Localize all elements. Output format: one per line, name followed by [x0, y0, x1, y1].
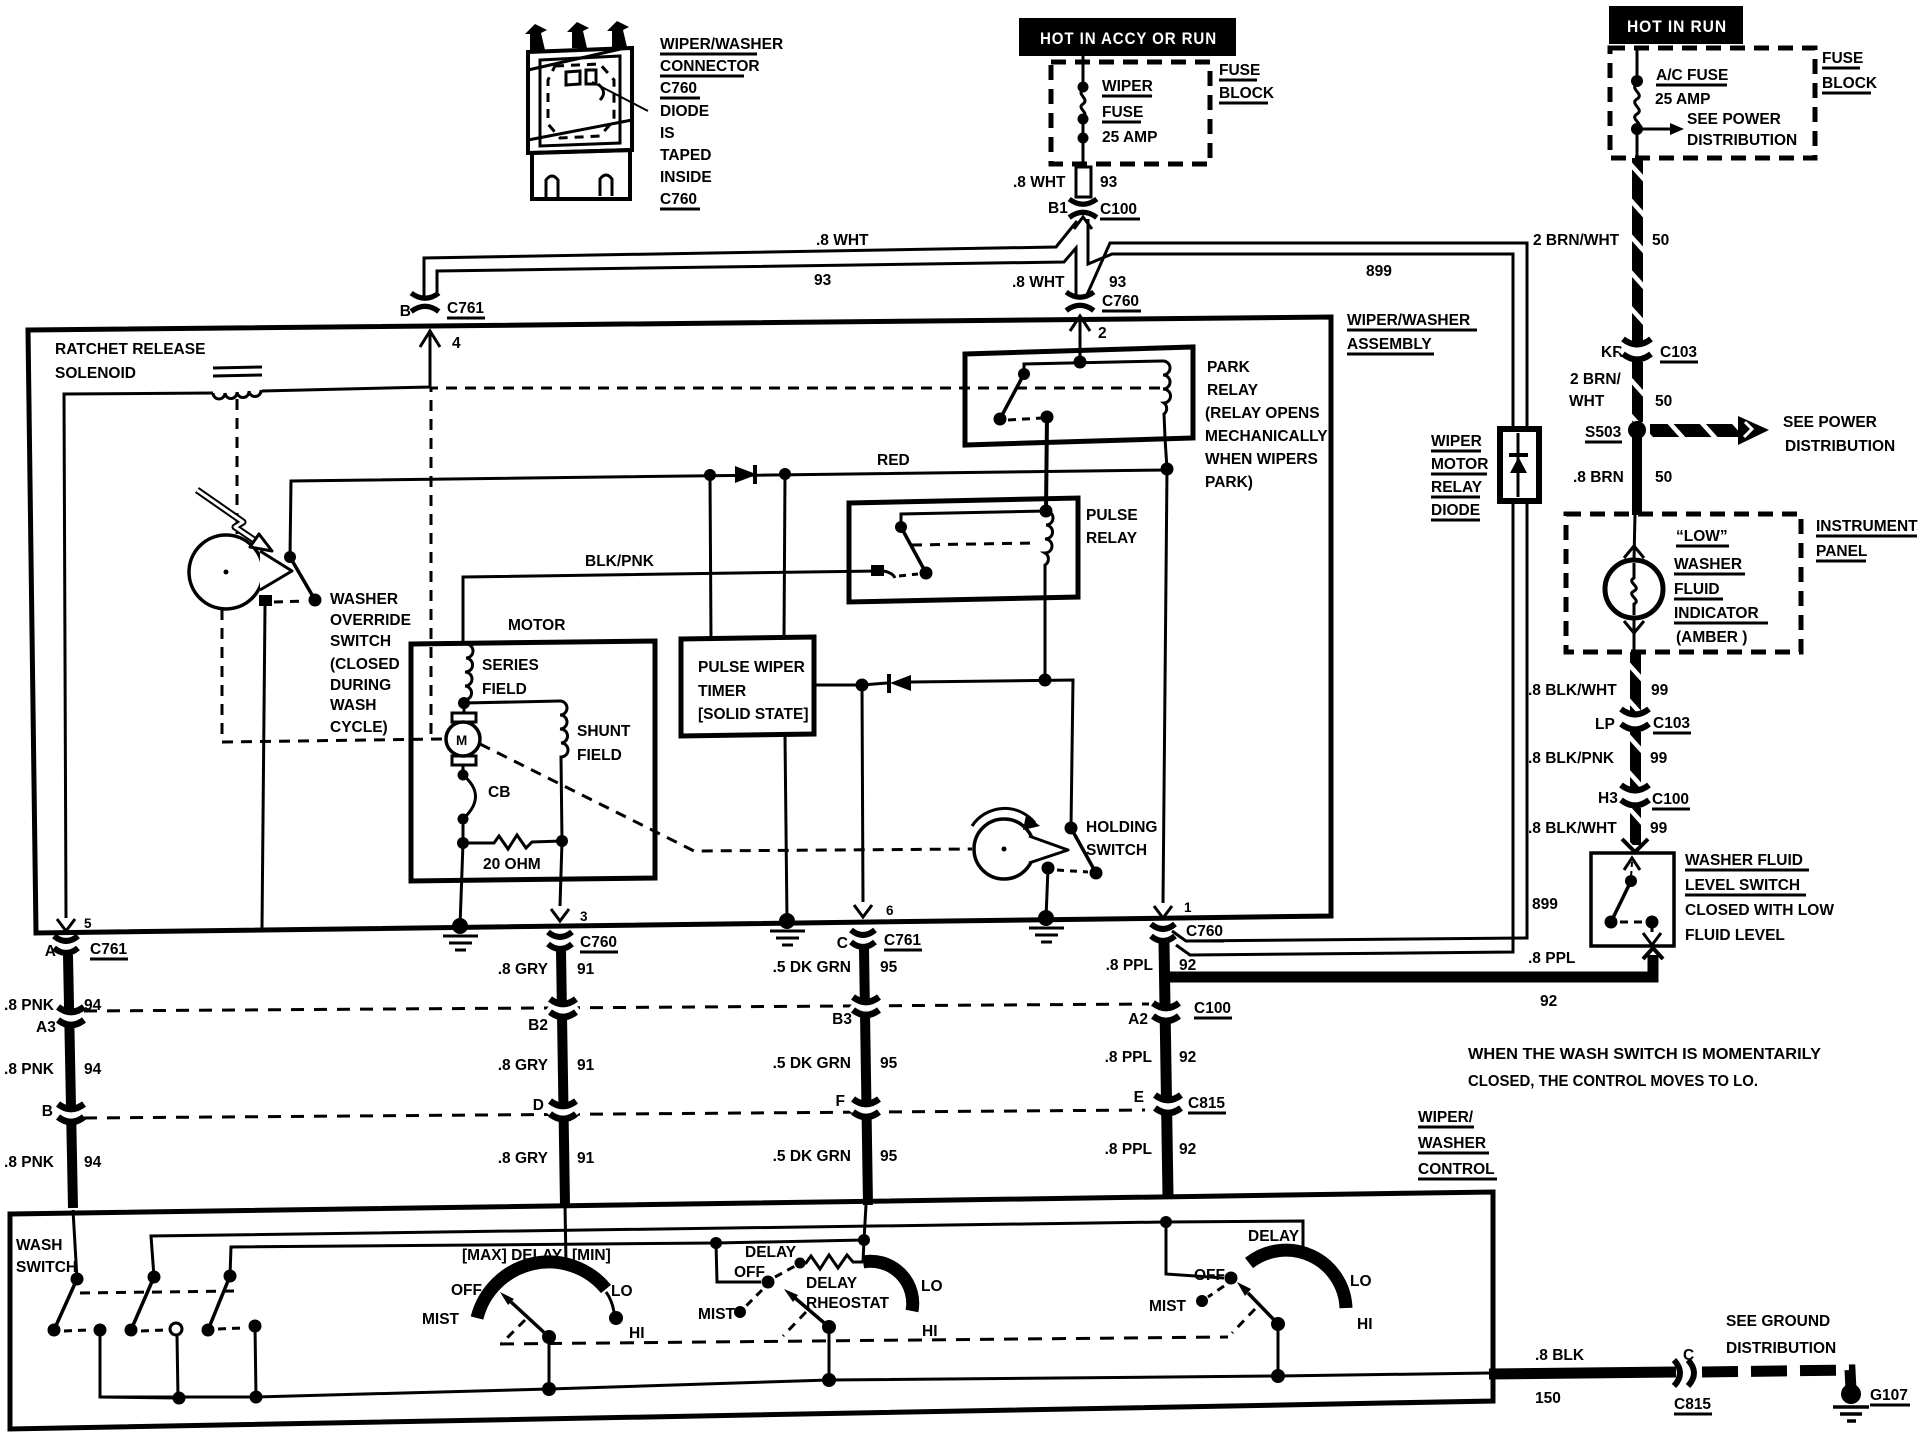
pulse relay contact	[895, 521, 907, 533]
svg-text:50: 50	[1655, 393, 1672, 410]
svg-text:DISTRIBUTION: DISTRIBUTION	[1785, 438, 1895, 455]
svg-text:2: 2	[1098, 325, 1107, 342]
rail from pole 3 to delay group 2	[230, 1240, 864, 1276]
connector E C815	[1154, 1095, 1182, 1113]
svg-text:DELAY: DELAY	[745, 1244, 797, 1261]
pulse relay lever	[901, 527, 926, 573]
dashed link motor to holding switch	[480, 744, 972, 851]
.8 BRN 50 solid wire to instrument panel	[1632, 437, 1642, 515]
svg-text:LO: LO	[611, 1283, 633, 1300]
svg-text:TIMER: TIMER	[698, 683, 746, 700]
label WIPER/WASHER CONNECTOR C760	[660, 36, 783, 209]
svg-text:WIPER: WIPER	[1431, 433, 1482, 450]
delay rheostat	[795, 1258, 806, 1269]
park relay top bus	[1024, 361, 1163, 374]
node RED to park coil	[1161, 463, 1174, 476]
svg-text:CLOSED, THE CONTROL MOVES TO L: CLOSED, THE CONTROL MOVES TO LO.	[1468, 1073, 1758, 1090]
svg-text:WHEN THE WASH SWITCH IS MOMENT: WHEN THE WASH SWITCH IS MOMENTARILY	[1468, 1046, 1822, 1063]
svg-text:95: 95	[880, 1055, 898, 1072]
hatched .8 BLK/WHT 99 below panel	[1630, 652, 1641, 712]
svg-text:95: 95	[880, 1148, 898, 1165]
wiper/washer assembly box	[28, 317, 1331, 933]
svg-text:LP: LP	[1595, 716, 1615, 733]
svg-text:91: 91	[577, 961, 595, 978]
svg-text:B: B	[42, 1103, 53, 1120]
svg-text:HOT IN RUN: HOT IN RUN	[1627, 17, 1727, 36]
svg-text:25 AMP: 25 AMP	[1655, 91, 1710, 108]
svg-text:93: 93	[814, 272, 832, 289]
hatched wire KR to S503	[1632, 362, 1643, 422]
park dashes group 3	[1232, 1309, 1255, 1333]
svg-text:WIPER: WIPER	[1102, 78, 1153, 95]
wiper/washer connector C760 pictorial drawing	[528, 48, 648, 199]
park dashes group 1	[502, 1320, 525, 1343]
connector B (C815 row)	[57, 1104, 85, 1122]
svg-text:MIST: MIST	[1149, 1298, 1187, 1315]
pulse relay box	[849, 498, 1078, 602]
wire pulse coil down to diode wire	[1044, 597, 1047, 680]
.5 DK GRN column wire	[864, 949, 868, 1205]
svg-text:3: 3	[580, 909, 588, 924]
DK GRN feed into group 2	[864, 1205, 866, 1240]
svg-text:A/C FUSE: A/C FUSE	[1656, 67, 1728, 84]
svg-text:MOTOR: MOTOR	[508, 617, 565, 634]
wash switch gang dash	[80, 1291, 235, 1293]
connector A3 (C100 row)	[57, 1007, 85, 1025]
svg-text:C760: C760	[1186, 923, 1223, 940]
wiper switch pole 2	[148, 1271, 161, 1284]
wire .8 WHT 93 from C100 B1 to C761 B	[424, 221, 1077, 297]
svg-text:F: F	[836, 1093, 845, 1110]
wire 899: C760 top right loop to pin 1	[1086, 243, 1527, 941]
svg-text:.8 PPL: .8 PPL	[1106, 957, 1153, 974]
gang dashed rail (control)	[500, 1337, 1228, 1344]
motor box	[411, 641, 655, 881]
svg-text:50: 50	[1655, 469, 1672, 486]
diode in timer-holding wire	[862, 683, 887, 685]
svg-text:(CLOSED: (CLOSED	[330, 656, 400, 673]
svg-text:50: 50	[1652, 232, 1669, 249]
svg-text:FUSE: FUSE	[1219, 62, 1260, 79]
svg-text:OFF: OFF	[734, 1264, 765, 1281]
low washer fluid indicator lamp	[1634, 514, 1635, 560]
BLK/PNK wire from series field to pulse relay	[463, 571, 878, 641]
washer fluid level switch box	[1591, 853, 1674, 946]
svg-text:FLUID: FLUID	[1674, 581, 1720, 598]
svg-text:.8 PPL: .8 PPL	[1528, 950, 1575, 967]
holding switch lower contact	[1042, 862, 1055, 875]
park relay coil	[1163, 361, 1171, 438]
svg-text:SWITCH: SWITCH	[1086, 842, 1147, 859]
svg-text:D: D	[533, 1097, 544, 1114]
svg-text:IS: IS	[660, 125, 675, 142]
svg-text:5: 5	[84, 916, 92, 931]
connector terminals	[525, 21, 629, 50]
svg-text:BLOCK: BLOCK	[1822, 75, 1878, 92]
.8 BLK 150 ground wire out of control box	[1489, 1372, 1676, 1374]
wire shunt to pin 3 exit	[560, 841, 562, 906]
svg-text:92: 92	[1179, 1049, 1196, 1066]
wire junction to shunt field	[464, 701, 560, 703]
svg-text:LEVEL SWITCH: LEVEL SWITCH	[1685, 877, 1800, 894]
hatched arrow to power distribution	[1650, 424, 1743, 437]
svg-text:.8 WHT: .8 WHT	[1012, 274, 1065, 291]
wire DK GRN column inside assembly	[862, 685, 863, 902]
svg-text:92: 92	[1179, 1141, 1196, 1158]
assembly exit arrow pin 3	[551, 909, 569, 921]
svg-text:RELAY: RELAY	[1431, 479, 1483, 496]
svg-text:LO: LO	[1350, 1273, 1372, 1290]
svg-text:PANEL: PANEL	[1816, 543, 1867, 560]
svg-text:899: 899	[1366, 263, 1392, 280]
svg-text:SEE POWER: SEE POWER	[1687, 111, 1781, 128]
arc 1	[477, 1262, 606, 1318]
svg-text:A2: A2	[1128, 1011, 1148, 1028]
wire pin4 down into assembly to solenoid	[262, 331, 430, 391]
svg-text:MIST: MIST	[698, 1306, 736, 1323]
lever group 1	[510, 1301, 549, 1337]
svg-text:.8 BLK/WHT: .8 BLK/WHT	[1528, 682, 1617, 699]
svg-text:HOT IN ACCY OR RUN: HOT IN ACCY OR RUN	[1040, 29, 1217, 48]
assembly exit arrow pin 1	[1154, 906, 1172, 918]
pulse relay coil	[1045, 511, 1053, 597]
svg-text:[SOLID STATE]: [SOLID STATE]	[698, 706, 809, 723]
svg-text:CONTROL: CONTROL	[1418, 1161, 1495, 1178]
wash switch pole 1	[73, 1210, 77, 1279]
hatched 2 BRN/WHT wire from A/C fuse	[1632, 158, 1643, 342]
svg-text:C100: C100	[1652, 791, 1689, 808]
svg-text:95: 95	[880, 959, 898, 976]
svg-text:94: 94	[84, 1061, 102, 1078]
pulse relay top bus	[901, 511, 1046, 527]
svg-text:OFF: OFF	[1194, 1267, 1225, 1284]
svg-text:1: 1	[1184, 900, 1192, 915]
pulse relay BLK/PNK contact	[871, 565, 884, 576]
svg-text:(RELAY OPENS: (RELAY OPENS	[1205, 405, 1320, 422]
washer override fixed contact, dash, ground wire	[259, 595, 272, 606]
svg-text:94: 94	[84, 1154, 102, 1171]
node: pulse relay coil to diode wire	[1039, 674, 1052, 687]
svg-text:OFF: OFF	[451, 1282, 482, 1299]
svg-text:DURING: DURING	[330, 677, 391, 694]
svg-text:DELAY: DELAY	[1248, 1228, 1300, 1245]
svg-text:C760: C760	[660, 80, 697, 97]
HOT IN RUN banner	[1609, 6, 1743, 44]
svg-text:RATCHET RELEASE: RATCHET RELEASE	[55, 341, 205, 358]
dashed row C100	[84, 1004, 1149, 1011]
svg-text:INSTRUMENT: INSTRUMENT	[1816, 518, 1918, 535]
park relay contact 1	[1018, 368, 1030, 380]
svg-text:E: E	[1134, 1089, 1144, 1106]
svg-text:.8 GRY: .8 GRY	[498, 1150, 549, 1167]
timer output wire to diode chain	[814, 684, 862, 687]
svg-text:DISTRIBUTION: DISTRIBUTION	[1687, 132, 1797, 149]
svg-text:92: 92	[1179, 957, 1196, 974]
svg-text:RELAY: RELAY	[1086, 530, 1138, 547]
connector C760 (in-line, top)	[1066, 292, 1094, 310]
svg-text:WHEN WIPERS: WHEN WIPERS	[1205, 451, 1318, 468]
svg-text:HOLDING: HOLDING	[1086, 819, 1157, 836]
svg-text:FIELD: FIELD	[482, 681, 527, 698]
fuse block dashed box (right)	[1610, 48, 1815, 158]
svg-text:.5 DK GRN: .5 DK GRN	[773, 959, 851, 976]
svg-text:SWITCH: SWITCH	[330, 633, 391, 650]
timer ground pin	[785, 736, 787, 921]
svg-text:.8 BLK/WHT: .8 BLK/WHT	[1528, 820, 1617, 837]
svg-text:.8 GRY: .8 GRY	[498, 1057, 549, 1074]
shunt field coil	[560, 701, 568, 841]
connector F	[852, 1099, 880, 1117]
svg-text:B2: B2	[528, 1017, 548, 1034]
GRY feed into arc 1	[565, 1205, 566, 1263]
assembly exit arrow pin 6	[854, 905, 872, 917]
svg-text:RED: RED	[877, 452, 910, 469]
svg-text:SHUNT: SHUNT	[577, 723, 631, 740]
arc 3	[1249, 1250, 1346, 1308]
svg-text:C761: C761	[447, 300, 484, 317]
wire park contact to pulse relay coil	[1046, 417, 1047, 511]
svg-text:25 AMP: 25 AMP	[1102, 129, 1157, 146]
dashed link cam to motor	[222, 609, 443, 742]
svg-text:H3: H3	[1598, 790, 1618, 807]
.8 PPL column wire	[1164, 943, 1168, 1196]
svg-text:.8 BLK/PNK: .8 BLK/PNK	[1528, 750, 1615, 767]
wiper motor relay diode box	[1500, 429, 1539, 501]
diode on RED wire	[704, 469, 716, 481]
svg-text:WIPER/WASHER: WIPER/WASHER	[660, 36, 783, 53]
svg-text:TAPED: TAPED	[660, 147, 711, 164]
svg-text:.8 PPL: .8 PPL	[1105, 1141, 1152, 1158]
wire diode feed: B1 C100 down, right, through diode, to pin 1	[1088, 219, 1513, 955]
svg-text:RELAY: RELAY	[1207, 382, 1259, 399]
connector B2	[549, 999, 577, 1017]
washer override upper contact and wire to RED	[284, 551, 296, 563]
svg-text:PULSE: PULSE	[1086, 507, 1138, 524]
hatched .8 BLK/WHT 99 to level switch	[1630, 808, 1641, 845]
svg-text:91: 91	[577, 1150, 595, 1167]
svg-text:HI: HI	[629, 1325, 645, 1342]
svg-text:.8 BRN: .8 BRN	[1573, 469, 1624, 486]
connector D	[549, 1101, 577, 1119]
svg-text:2 BRN/WHT: 2 BRN/WHT	[1533, 232, 1620, 249]
wire pin 2 to park relay top	[1079, 316, 1082, 362]
ground G107	[1841, 1384, 1861, 1404]
dashed row C815	[84, 1110, 1145, 1118]
arc 2	[863, 1261, 913, 1311]
svg-text:WASHER: WASHER	[330, 591, 398, 608]
svg-text:CYCLE): CYCLE)	[330, 719, 388, 736]
dashed ground wire to G107	[1702, 1370, 1851, 1390]
ground rail along control box bottom	[100, 1373, 1490, 1397]
svg-text:SEE GROUND: SEE GROUND	[1726, 1313, 1830, 1330]
svg-text:.8 BLK: .8 BLK	[1535, 1347, 1585, 1364]
svg-text:C103: C103	[1653, 715, 1690, 732]
svg-text:S503: S503	[1585, 424, 1622, 441]
svg-text:.8 GRY: .8 GRY	[498, 961, 549, 978]
svg-text:6: 6	[886, 903, 894, 918]
pulse wiper timer box	[681, 637, 814, 736]
node pulse relay coil top	[1040, 505, 1053, 518]
diode symbol in box	[1509, 453, 1528, 457]
svg-text:B1: B1	[1048, 200, 1068, 217]
wire armature to case ground	[460, 843, 463, 926]
washer override lever	[290, 557, 315, 600]
svg-text:PULSE WIPER: PULSE WIPER	[698, 659, 805, 676]
svg-text:.8 PNK: .8 PNK	[4, 1061, 55, 1078]
dashed link solenoid to washer cam	[236, 399, 239, 534]
connector A2 C100	[1152, 1003, 1180, 1021]
wire holding contact to ground	[1046, 868, 1048, 918]
svg-text:PARK): PARK)	[1205, 474, 1253, 491]
arrow up under B1 C100	[1074, 217, 1092, 229]
circuit breaker CB	[462, 765, 465, 774]
svg-text:B3: B3	[832, 1011, 852, 1028]
connector B3	[852, 997, 880, 1015]
delay group 2: rheostat	[710, 1237, 722, 1249]
svg-text:DIODE: DIODE	[660, 103, 709, 120]
svg-text:WASH: WASH	[330, 697, 377, 714]
svg-text:899: 899	[1532, 896, 1558, 913]
svg-text:CLOSED WITH LOW: CLOSED WITH LOW	[1685, 902, 1834, 919]
svg-text:99: 99	[1650, 750, 1668, 767]
holding switch cam	[974, 819, 1034, 879]
park relay contact dash	[1008, 418, 1042, 420]
svg-text:C815: C815	[1188, 1095, 1225, 1112]
wiper fuse symbol	[1081, 56, 1085, 164]
svg-text:INDICATOR: INDICATOR	[1674, 605, 1759, 622]
svg-text:91: 91	[577, 1057, 595, 1074]
node park relay top	[1074, 356, 1087, 369]
HI contact group 1	[606, 1292, 614, 1312]
svg-text:FLUID LEVEL: FLUID LEVEL	[1685, 927, 1785, 944]
svg-text:DISTRIBUTION: DISTRIBUTION	[1726, 1340, 1836, 1357]
svg-text:SOLENOID: SOLENOID	[55, 365, 136, 382]
svg-text:(AMBER ): (AMBER )	[1676, 629, 1747, 646]
ground (motor case)	[452, 918, 468, 934]
fuse block dashed box (left)	[1051, 62, 1210, 164]
svg-text:WASHER: WASHER	[1674, 556, 1742, 573]
instrument panel dashed box	[1566, 514, 1801, 652]
svg-text:150: 150	[1535, 1390, 1561, 1407]
svg-text:C760: C760	[1102, 293, 1139, 310]
svg-text:SWITCH: SWITCH	[16, 1259, 77, 1276]
wiper switch pole 3	[224, 1270, 237, 1283]
svg-text:2 BRN/: 2 BRN/	[1570, 371, 1622, 388]
svg-text:SEE POWER: SEE POWER	[1783, 414, 1877, 431]
svg-text:BLOCK: BLOCK	[1219, 85, 1275, 102]
park relay box	[965, 347, 1193, 445]
svg-text:FUSE: FUSE	[1822, 50, 1863, 67]
wiper/washer control box	[10, 1192, 1493, 1429]
park relay lever	[1000, 374, 1024, 419]
wire .8 WHT 93 from C760 to C761 B	[437, 248, 1076, 296]
svg-text:WASH: WASH	[16, 1237, 63, 1254]
svg-text:99: 99	[1651, 682, 1669, 699]
svg-text:CONNECTOR: CONNECTOR	[660, 58, 760, 75]
svg-text:A3: A3	[36, 1019, 56, 1036]
.8 PPL 92 thick wire level switch to column	[1643, 948, 1663, 959]
node: resistor left junction	[457, 837, 469, 849]
svg-text:DELAY: DELAY	[806, 1275, 858, 1292]
svg-text:INSIDE: INSIDE	[660, 169, 712, 186]
wire park coil to RED junction and down to pin 1	[1163, 438, 1167, 903]
svg-text:FUSE: FUSE	[1102, 104, 1143, 121]
wire RED junction to pulse timer right pin	[784, 474, 785, 639]
svg-text:93: 93	[1109, 274, 1127, 291]
level switch internals	[1624, 858, 1640, 870]
svg-text:99: 99	[1650, 820, 1668, 837]
hatched .8 BLK/PNK 99	[1630, 732, 1641, 788]
connector B C761 (top of assembly)	[411, 293, 439, 311]
svg-text:92: 92	[1540, 993, 1557, 1010]
svg-text:C760: C760	[660, 191, 697, 208]
20 OHM resistor	[463, 835, 562, 849]
svg-text:MECHANICALLY: MECHANICALLY	[1205, 428, 1328, 445]
holding switch top contact	[1065, 822, 1078, 835]
svg-text:WASHER FLUID: WASHER FLUID	[1685, 852, 1803, 869]
node: series/shunt junction	[458, 697, 470, 709]
holding switch lever	[1071, 828, 1096, 873]
delay group 3	[1160, 1216, 1172, 1228]
svg-text:HI: HI	[1357, 1316, 1373, 1333]
svg-text:.8 PPL: .8 PPL	[1105, 1049, 1152, 1066]
svg-text:BLK/PNK: BLK/PNK	[585, 553, 655, 570]
svg-text:B: B	[400, 303, 411, 320]
svg-text:SERIES: SERIES	[482, 657, 539, 674]
svg-text:ASSEMBLY: ASSEMBLY	[1347, 336, 1432, 353]
svg-text:C103: C103	[1660, 344, 1697, 361]
svg-text:.8 PNK: .8 PNK	[4, 1154, 55, 1171]
svg-text:C760: C760	[580, 934, 617, 951]
holding switch rotate arrow	[972, 808, 1035, 826]
rail from pole 2 to PPL and group 3	[151, 1221, 1303, 1277]
washer override switch cam	[189, 535, 263, 609]
dash OFF to MIST group 2	[746, 1290, 762, 1306]
svg-text:.5 DK GRN: .5 DK GRN	[773, 1055, 851, 1072]
svg-text:.8 PNK: .8 PNK	[4, 997, 55, 1014]
svg-text:MOTOR: MOTOR	[1431, 456, 1488, 473]
.8 PNK column wire	[68, 955, 73, 1208]
svg-text:WASHER: WASHER	[1418, 1135, 1486, 1152]
svg-text:CB: CB	[488, 784, 510, 801]
svg-text:MIST: MIST	[422, 1311, 460, 1328]
lightning arrow at cam	[197, 490, 272, 551]
connector B1 C100	[1069, 199, 1097, 217]
svg-text:WHT: WHT	[1569, 393, 1605, 410]
dash OFF to rheostat	[775, 1266, 795, 1277]
inline connector housing below fuse box	[1076, 167, 1091, 197]
pulse relay mid dash	[912, 543, 1036, 545]
svg-text:OVERRIDE: OVERRIDE	[330, 612, 411, 629]
svg-text:FIELD: FIELD	[577, 747, 622, 764]
arrow up pin 2 into park relay	[1070, 316, 1090, 331]
series field coil	[464, 644, 473, 700]
svg-text:“LOW”: “LOW”	[1676, 528, 1728, 545]
connector C760 (GRY column)	[548, 932, 572, 949]
svg-text:DIODE: DIODE	[1431, 502, 1480, 519]
park relay contact 2	[1041, 411, 1054, 424]
svg-text:C100: C100	[1100, 201, 1137, 218]
svg-text:G107: G107	[1870, 1387, 1908, 1404]
park dashes group 2	[783, 1312, 806, 1336]
wire RED junction to pulse timer left pin	[710, 475, 711, 639]
node: DK GRN tap	[856, 679, 869, 692]
svg-text:WIPER/: WIPER/	[1418, 1109, 1474, 1126]
svg-text:RHEOSTAT: RHEOSTAT	[806, 1295, 889, 1312]
svg-text:HI: HI	[922, 1323, 938, 1340]
svg-text:20 OHM: 20 OHM	[483, 856, 541, 873]
svg-text:C761: C761	[884, 932, 921, 949]
